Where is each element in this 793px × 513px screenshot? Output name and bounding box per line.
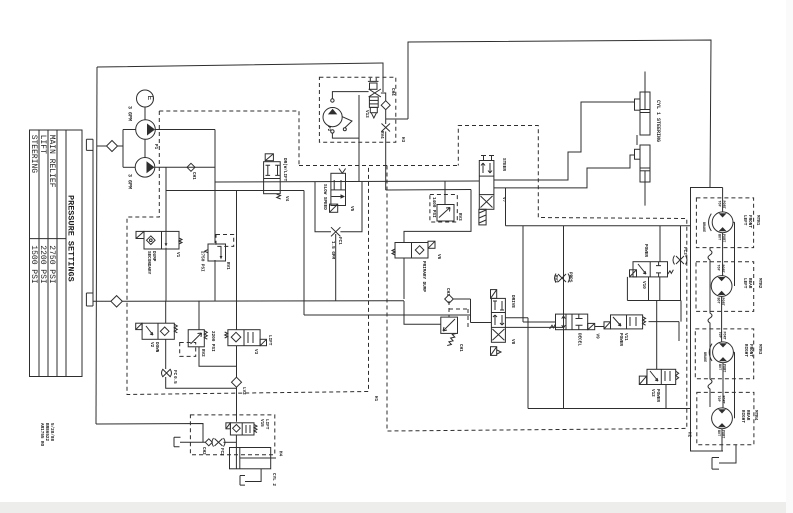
svg-text:BR86522: BR86522	[44, 423, 49, 441]
svg-text:FC2: FC2	[219, 448, 224, 456]
svg-text:BRAKE: BRAKE	[702, 352, 706, 362]
svg-text:H2: H2	[687, 432, 692, 438]
svg-text:PORT: PORT	[721, 201, 725, 209]
svg-text:TOP: TOP	[717, 201, 721, 207]
svg-text:PRESSURE SETTINGS: PRESSURE SETTINGS	[66, 195, 76, 282]
svg-text:RV2: RV2	[200, 349, 205, 357]
svg-text:DUMP: DUMP	[151, 251, 156, 262]
svg-text:LEFT: LEFT	[742, 215, 747, 226]
svg-text:PRPS: PRPS	[568, 272, 573, 283]
svg-text:STEER: STEER	[501, 158, 506, 171]
svg-text:FC3: FC3	[682, 247, 687, 255]
svg-text:V11: V11	[623, 333, 628, 341]
svg-text:1500 PSI: 1500 PSI	[29, 245, 38, 283]
svg-text:PORT: PORT	[720, 265, 724, 273]
svg-text:TOP: TOP	[716, 265, 720, 271]
svg-text:3 GPM: 3 GPM	[127, 106, 133, 121]
svg-text:BRAKE: BRAKE	[701, 222, 705, 232]
svg-text:CYL 2: CYL 2	[271, 473, 276, 486]
svg-text:V13: V13	[364, 110, 369, 118]
svg-text:DECEL: DECEL	[577, 333, 582, 346]
svg-text:V5: V5	[349, 206, 354, 212]
svg-text:CH4: CH4	[390, 88, 395, 96]
svg-text:V1: V1	[175, 252, 180, 258]
svg-text:AR1755 RO: AR1755 RO	[39, 423, 44, 447]
svg-text:PORT: PORT	[721, 396, 725, 404]
svg-text:CH2: CH2	[201, 447, 206, 455]
svg-text:SLOW SPEED: SLOW SPEED	[322, 184, 327, 210]
svg-text:CH1: CH1	[191, 172, 196, 180]
svg-text:2750 PSI: 2750 PSI	[200, 251, 205, 272]
svg-text:POWER: POWER	[655, 389, 660, 402]
svg-text:POWER: POWER	[618, 333, 623, 346]
svg-text:DR(W/LIFT: DR(W/LIFT	[282, 158, 287, 182]
svg-text:LEFT: LEFT	[742, 278, 747, 289]
svg-text:RIGHT: RIGHT	[743, 344, 748, 357]
svg-text:REAR: REAR	[747, 278, 752, 289]
svg-text:1.5 GPM: 1.5 GPM	[330, 241, 335, 259]
svg-text:BOT: BOT	[717, 364, 721, 370]
svg-text:TOP: TOP	[717, 332, 721, 338]
svg-text:BOT: BOT	[716, 298, 720, 304]
svg-text:PRIMARY DUMP: PRIMARY DUMP	[421, 261, 426, 292]
svg-text:STEERING: STEERING	[29, 135, 38, 174]
svg-text:MAIN RELIEF: MAIN RELIEF	[47, 135, 56, 188]
svg-text:H1: H1	[373, 396, 378, 402]
svg-text:RV1: RV1	[225, 262, 230, 270]
svg-text:MTR2: MTR2	[757, 278, 762, 289]
svg-text:SECONDARY: SECONDARY	[146, 251, 151, 275]
svg-text:V9: V9	[595, 334, 600, 340]
svg-text:FC: FC	[172, 370, 177, 376]
svg-text:V8: V8	[510, 339, 515, 345]
svg-text:DOWN: DOWN	[154, 342, 159, 353]
svg-text:0.5: 0.5	[172, 376, 177, 384]
svg-text:1400 PSI: 1400 PSI	[431, 197, 436, 218]
svg-text:BOT: BOT	[716, 430, 720, 436]
svg-text:2200 PSI: 2200 PSI	[38, 245, 47, 283]
svg-text:V3: V3	[253, 349, 258, 355]
svg-text:P1: P1	[153, 144, 158, 150]
svg-text:CYL 1 STEERING: CYL 1 STEERING	[655, 100, 661, 142]
svg-text:FRONT: FRONT	[748, 344, 753, 357]
svg-text:FRONT: FRONT	[747, 215, 752, 228]
svg-text:TOP: TOP	[716, 396, 720, 402]
svg-text:V10: V10	[641, 281, 646, 289]
svg-text:DRIVE: DRIVE	[510, 295, 515, 308]
svg-text:LIFT: LIFT	[38, 135, 47, 154]
svg-text:BOT: BOT	[717, 234, 721, 240]
svg-text:RV4: RV4	[379, 131, 384, 139]
svg-text:V12: V12	[650, 389, 655, 397]
svg-text:3 GPM: 3 GPM	[127, 174, 133, 189]
svg-text:RIGHT: RIGHT	[740, 410, 745, 423]
svg-text:5/28/88: 5/28/88	[49, 423, 54, 441]
svg-text:PORT: PORT	[722, 332, 726, 340]
svg-text:V4: V4	[284, 196, 289, 202]
svg-text:MTR4: MTR4	[753, 410, 758, 421]
svg-text:MTR3: MTR3	[757, 344, 762, 355]
svg-text:P2: P2	[326, 126, 331, 132]
svg-text:H4: H4	[278, 451, 283, 457]
svg-text:FC1: FC1	[337, 237, 342, 245]
svg-text:REAR: REAR	[745, 410, 750, 421]
svg-text:CH1: CH1	[458, 344, 463, 352]
svg-text:CH3: CH3	[445, 288, 450, 296]
svg-text:H3: H3	[400, 137, 405, 143]
svg-text:2200 PSI: 2200 PSI	[210, 331, 215, 352]
svg-text:MTR1: MTR1	[755, 215, 760, 226]
svg-text:V15: V15	[259, 419, 264, 427]
svg-text:V6: V6	[436, 254, 441, 260]
svg-text:E: E	[145, 96, 154, 101]
svg-text:LV2: LV2	[241, 387, 246, 395]
svg-text:2750 PSI: 2750 PSI	[47, 245, 56, 283]
svg-text:LIFT: LIFT	[267, 335, 272, 346]
svg-text:V2: V2	[149, 342, 154, 348]
svg-text:RV3: RV3	[457, 213, 462, 221]
svg-text:POWER: POWER	[643, 244, 648, 257]
svg-text:RV2: RV2	[553, 275, 558, 283]
